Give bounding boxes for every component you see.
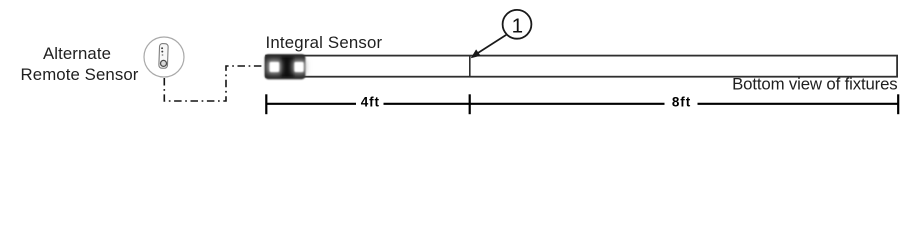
- remote sensor icon (circle with device): [144, 37, 184, 77]
- svg-text:Bottom view of fixtures: Bottom view of fixtures: [732, 75, 897, 94]
- svg-text:1: 1: [512, 14, 523, 37]
- svg-text:Remote Sensor: Remote Sensor: [21, 65, 139, 84]
- label: Alternate Remote Sensor: [21, 44, 139, 84]
- wire (dash-dot connector from remote sensor to fixture): [164, 66, 264, 101]
- fixture bar (bottom view, 12ft): [266, 56, 897, 77]
- dimension 4ft: [266, 94, 469, 114]
- divider between 4ft and 8ft sections: [469, 56, 471, 77]
- callout balloon 1: [471, 10, 532, 58]
- dimension 8ft: [470, 94, 899, 114]
- svg-text:8ft: 8ft: [672, 95, 691, 110]
- integral sensor block (dark with glowing LEDs): [265, 54, 306, 79]
- svg-text:Alternate: Alternate: [43, 44, 111, 63]
- svg-text:Integral Sensor: Integral Sensor: [266, 33, 383, 52]
- svg-text:4ft: 4ft: [361, 95, 380, 110]
